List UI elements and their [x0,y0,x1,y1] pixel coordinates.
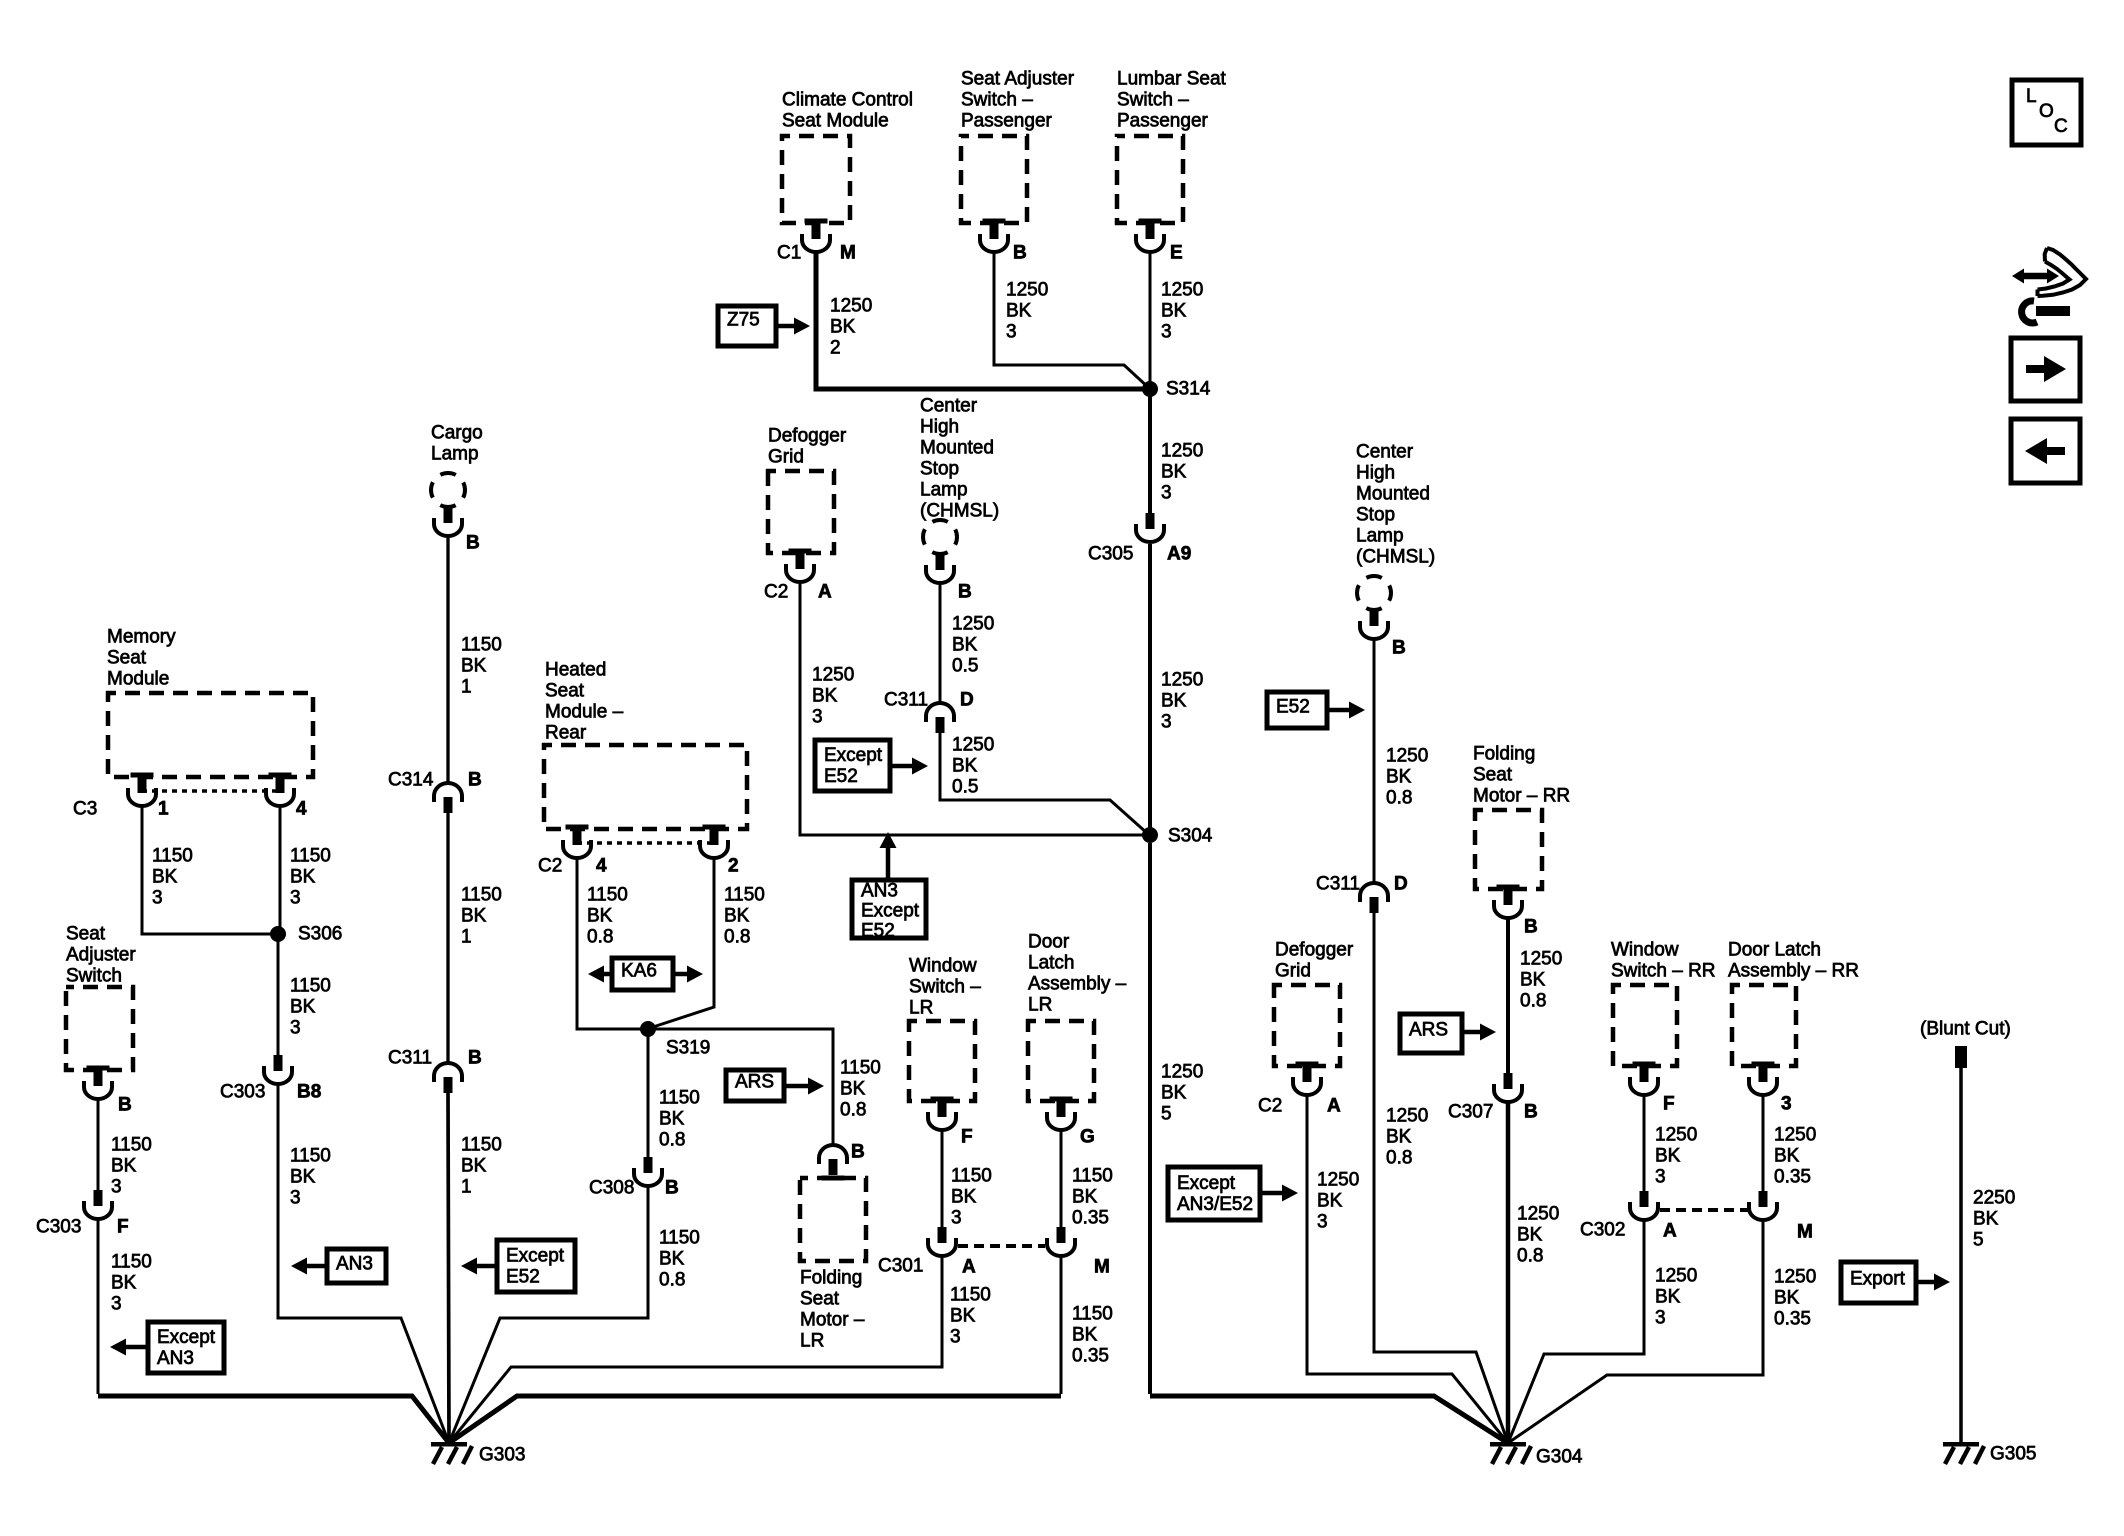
svg-text:BK: BK [1161,301,1187,322]
svg-text:3: 3 [1655,1308,1666,1329]
wire C308 to G303 (1150 BK 0.8) [449,1187,648,1443]
svg-text:Defogger: Defogger [768,426,847,447]
svg-text:0.8: 0.8 [724,927,750,948]
connector C311 pin B [434,1063,462,1093]
svg-text:AN3/E52: AN3/E52 [1177,1194,1253,1215]
Except E52 arrow left [461,1258,497,1275]
svg-text:B: B [118,1095,132,1116]
svg-text:F: F [1663,1094,1675,1115]
label 1250 BK 3 defogger right [1317,1170,1359,1233]
Export reference box [1841,1262,1916,1303]
svg-text:3: 3 [1161,322,1172,343]
svg-text:Motor –: Motor – [800,1310,865,1331]
svg-text:1150: 1150 [290,1146,331,1167]
door latch assembly RR label [1728,940,1859,982]
svg-text:1250: 1250 [1517,1204,1559,1225]
svg-text:1250: 1250 [1774,1125,1816,1146]
svg-text:1250: 1250 [1006,280,1048,301]
CHMSL center connector pin B [926,554,954,583]
svg-text:1150: 1150 [111,1252,152,1273]
svg-text:F: F [961,1127,973,1148]
connector C311 pin D center [926,703,954,733]
label 1250 BK 3 lumbar [1161,280,1203,343]
window switch RR box [1613,985,1677,1066]
svg-text:1150: 1150 [461,885,502,906]
svg-text:1: 1 [461,1177,472,1198]
wire passenger B to S314 (1250 BK 3) [994,253,1150,389]
svg-text:3: 3 [1655,1167,1666,1188]
svg-text:2250: 2250 [1973,1188,2015,1209]
svg-text:0.8: 0.8 [587,927,613,948]
defogger center connector pin A [786,549,814,583]
svg-text:Switch – RR: Switch – RR [1611,961,1716,982]
door latch RR connector pin 3 [1749,1062,1777,1096]
window RR connector pin F [1630,1062,1658,1096]
svg-text:1150: 1150 [1072,1304,1113,1325]
wire C305 to S304 (1250 BK 3) [1148,544,1152,835]
E52 arrow [1327,702,1365,719]
label 1250 BK 0.8 CHMSL right [1386,746,1428,809]
wire C3-4 to S306 (1150 BK 3) [279,807,282,934]
svg-text:A: A [1327,1096,1341,1117]
defogger grid center box [768,471,834,553]
svg-text:Mounted: Mounted [1356,484,1430,505]
svg-text:3: 3 [1161,483,1172,504]
wire C311-D to S304 (1250 BK 0.5) [940,733,1147,833]
svg-text:0.5: 0.5 [952,777,978,798]
svg-text:A: A [962,1257,976,1278]
label 1150 BK 3 pin4 [290,846,331,909]
Except AN3 reference box [148,1322,224,1373]
svg-text:1250: 1250 [1161,441,1203,462]
CHMSL right lamp symbol [1357,576,1391,610]
label 1250 BK 3 passenger [1006,280,1048,343]
connector C2 pin 2 [700,825,728,859]
pin label C1 M [777,243,856,264]
svg-text:BK: BK [461,656,487,677]
connector M RR [1749,1191,1777,1220]
svg-text:0.35: 0.35 [1072,1208,1109,1229]
svg-text:C303: C303 [36,1217,81,1238]
svg-text:Assembly –: Assembly – [1028,974,1127,995]
wire C311-D right to G304 (1250 BK 0.8) [1374,913,1508,1443]
wire S314 to C305 (1250 BK 3) [1148,389,1152,513]
svg-text:BK: BK [290,997,316,1018]
svg-text:AN3: AN3 [336,1254,373,1275]
Except AN3 arrow [110,1339,148,1356]
svg-text:AN3: AN3 [157,1348,194,1369]
wire S319 to folding seat motor LR (1150 BK 0.8) [648,1029,833,1144]
label C314 B [388,770,482,791]
wire C301-A to G303 (1150 BK 3) [449,1257,942,1443]
window switch LR connector pin F [928,1097,956,1131]
svg-text:B: B [468,770,482,791]
svg-text:3: 3 [1317,1212,1328,1233]
svg-text:Window: Window [909,956,977,977]
label C2 A defogger center [764,582,832,603]
label C302 A [1580,1220,1677,1242]
label C303 B8 [220,1082,321,1103]
svg-text:G305: G305 [1990,1444,2036,1465]
wire C307 to G304 (1250 BK 0.8) [1506,1103,1511,1443]
svg-text:0.8: 0.8 [1386,788,1412,809]
svg-text:BK: BK [1072,1325,1098,1346]
ARS reference box right [1400,1014,1462,1053]
svg-text:1: 1 [158,799,169,820]
svg-text:BK: BK [1386,1127,1412,1148]
svg-text:ARS: ARS [735,1072,774,1093]
svg-text:C311: C311 [884,690,928,711]
svg-text:1250: 1250 [1520,949,1562,970]
svg-text:2: 2 [830,338,841,359]
blunt cut terminal [1955,1046,1967,1068]
Except AN3/E52 reference box [1168,1167,1260,1220]
folding seat motor RR box [1475,810,1542,889]
svg-text:1: 1 [461,927,472,948]
svg-text:B: B [851,1142,865,1163]
svg-text:Heated: Heated [545,660,606,681]
ARS arrow left [784,1078,824,1095]
svg-text:Seat: Seat [107,648,147,669]
connector C305 pin A9 [1136,513,1164,542]
wire S319 to C308 (1150 BK 0.8) [647,1029,650,1157]
memory connector face dotted line [142,789,280,793]
svg-text:1250: 1250 [1317,1170,1359,1191]
label C2 A defogger right [1258,1096,1341,1117]
svg-text:C303: C303 [220,1082,265,1103]
svg-text:0.35: 0.35 [1774,1309,1811,1330]
LOC legend box [2012,80,2081,145]
svg-text:BK: BK [659,1249,685,1270]
wire B to C303-F (1150 BK 3) [97,1100,100,1190]
E52 reference box [1267,692,1327,728]
wire defogger C2-A to S304 (1250 BK 3) [800,583,1150,835]
svg-text:LR: LR [909,998,933,1019]
svg-text:Assembly – RR: Assembly – RR [1728,961,1859,982]
svg-text:KA6: KA6 [621,961,657,982]
svg-text:1250: 1250 [1655,1125,1697,1146]
cargo lamp label [431,423,483,465]
label 1150 BK 0.8 folding LR [840,1058,881,1121]
label 1150 BK 0.8 pin2 [724,885,765,948]
label 1250 BK 3 above C302 [1655,1125,1697,1188]
wire defogger right to G304 (1250 BK 3) [1307,1096,1508,1443]
svg-text:C2: C2 [1258,1096,1282,1117]
connector pin B passenger [980,219,1008,253]
splice S319 [640,1021,656,1037]
label C3 pins 1 and 4 [73,799,307,820]
label 1250 BK 3 defogger center [812,665,854,728]
wire C303-B8 to G303 (1150 BK 3) [278,1085,449,1443]
svg-text:2: 2 [728,856,739,877]
wire CHMSL right B to C311-D (1250 BK 0.8) [1373,640,1376,882]
svg-text:1150: 1150 [840,1058,881,1079]
svg-text:Folding: Folding [1473,744,1535,765]
svg-text:BK: BK [1317,1191,1343,1212]
svg-text:3: 3 [152,888,163,909]
C302 connector face dashed line [1660,1208,1748,1212]
svg-text:BK: BK [1006,301,1032,322]
svg-text:(CHMSL): (CHMSL) [1356,547,1435,568]
svg-text:B: B [468,1048,482,1069]
svg-text:C302: C302 [1580,1220,1625,1241]
wire G to M (1150 BK 0.35) [1060,1131,1063,1227]
svg-text:1250: 1250 [1386,1106,1428,1127]
svg-text:E52: E52 [506,1267,540,1288]
svg-text:D: D [1394,874,1408,895]
label C2 pins 4 and 2 [538,856,739,877]
label 1150 BK 3 pin1 [152,846,193,909]
folding seat motor LR box [800,1178,866,1261]
label 1250 BK 0.35 below M RR [1774,1267,1816,1330]
svg-text:C: C [2054,116,2068,137]
wire S304 down (1250 BK 5) [1148,843,1152,1394]
connector pin E lumbar [1136,219,1164,253]
label 1250 BK 0.8 below C311 right [1386,1106,1428,1169]
svg-text:1250: 1250 [952,735,994,756]
seat adjuster switch passenger box [961,136,1027,223]
svg-text:3: 3 [111,1177,122,1198]
svg-text:1150: 1150 [1072,1166,1113,1187]
svg-text:5: 5 [1973,1230,1984,1251]
wire S306 to C303-B8 (1150 BK 3) [277,934,280,1055]
Z75 reference box [718,306,776,346]
svg-text:1250: 1250 [1655,1266,1697,1287]
label C308 B [589,1178,679,1199]
svg-text:BK: BK [461,906,487,927]
wire right horizontal to G303 [449,1396,1061,1443]
label 1250 BK 0.35 above M RR [1774,1125,1816,1188]
label C311 D right [1316,874,1408,895]
svg-text:E52: E52 [824,766,858,787]
wire C2-2 to S319 (1150 BK 0.8) [650,859,714,1028]
svg-text:ARS: ARS [1409,1020,1448,1041]
svg-text:B: B [1013,243,1027,264]
svg-text:1150: 1150 [950,1285,991,1306]
climate control seat module box [782,136,850,223]
svg-text:3: 3 [812,707,823,728]
connector C303 pin B8 [264,1055,292,1084]
svg-text:3: 3 [290,1018,301,1039]
Except AN3/E52 arrow [1260,1185,1298,1202]
AN3 arrow [291,1258,327,1275]
svg-text:C307: C307 [1448,1102,1493,1123]
svg-text:C2: C2 [764,582,788,603]
label 1250 BK 3 trunk upper [1161,441,1203,504]
svg-text:Except: Except [824,745,883,766]
door latch assembly LR label [1028,932,1127,1016]
cargo lamp symbol [431,473,465,507]
svg-text:BK: BK [1072,1187,1098,1208]
ground G305 [1943,1442,2036,1465]
svg-text:BK: BK [1386,767,1412,788]
svg-text:Folding: Folding [800,1268,862,1289]
wire C3-1 to S306 (1150 BK 3) [142,807,278,934]
svg-text:Seat: Seat [800,1289,840,1310]
svg-text:0.5: 0.5 [952,656,978,677]
previous page arrow box [2011,419,2080,483]
svg-text:0.35: 0.35 [1072,1346,1109,1367]
svg-text:0.8: 0.8 [1517,1246,1543,1267]
svg-text:G304: G304 [1536,1447,1583,1468]
label C305 A9 [1088,544,1191,565]
svg-text:1250: 1250 [1161,670,1203,691]
label 1250 BK 0.8 below C307 [1517,1204,1559,1267]
svg-text:M: M [1094,1257,1110,1278]
wire M down (1150 BK 0.35) [1060,1257,1063,1394]
svg-text:AN3: AN3 [861,881,898,902]
svg-text:BK: BK [290,867,316,888]
svg-text:Memory: Memory [107,627,176,648]
wire lumbar E to S314 (1250 BK 3) [1149,253,1152,389]
folding seat motor LR label [800,1268,865,1352]
connector C3 pin 1 [128,773,156,807]
svg-text:Passenger: Passenger [961,111,1053,132]
KA6 left arrow [588,966,612,983]
svg-text:Adjuster: Adjuster [66,945,136,966]
svg-text:Switch –: Switch – [961,90,1033,111]
svg-text:3: 3 [951,1208,962,1229]
svg-text:4: 4 [596,856,607,877]
svg-text:1250: 1250 [812,665,854,686]
svg-text:1150: 1150 [461,1135,502,1156]
wire M RR to G304 (1250 BK 0.35) [1508,1221,1763,1443]
svg-text:Door Latch: Door Latch [1728,940,1821,961]
svg-text:BK: BK [1517,1225,1543,1246]
heated connector face dotted line [577,841,714,845]
wire C303-F down (1150 BK 3) [97,1220,100,1394]
svg-text:1250: 1250 [830,296,872,317]
label 1150 BK 0.35 below M [1072,1304,1113,1367]
svg-text:Lamp: Lamp [431,444,479,465]
label 1150 BK 1 upper [461,635,502,698]
ground G304 [1490,1442,1583,1468]
splice S314 [1142,381,1158,397]
label C307 B [1448,1102,1538,1123]
window switch LR label [909,956,981,1019]
CHMSL center label [920,396,999,522]
next page arrow box [2011,338,2080,401]
svg-text:Mounted: Mounted [920,438,994,459]
svg-text:Defogger: Defogger [1275,940,1354,961]
connector C311 pin D right [1360,883,1388,913]
Except E52 reference box center [815,740,890,791]
svg-text:BK: BK [587,906,613,927]
svg-text:Switch –: Switch – [1117,90,1189,111]
door latch assembly LR box [1028,1021,1094,1101]
svg-text:BK: BK [1655,1287,1681,1308]
svg-text:BK: BK [1655,1146,1681,1167]
svg-text:D: D [960,690,974,711]
svg-text:1150: 1150 [290,976,331,997]
svg-text:Module: Module [107,669,169,690]
folding seat motor LR connector pin B [819,1145,847,1175]
ground G303 [431,1442,525,1466]
connector C3 pin 4 [266,773,294,807]
svg-text:LR: LR [1028,995,1052,1016]
svg-text:Seat Module: Seat Module [782,111,889,132]
svg-text:BK: BK [659,1109,685,1130]
svg-text:1250: 1250 [952,614,994,635]
svg-text:BK: BK [1161,462,1187,483]
wire C2-4 to S319 (1150 BK 0.8) [577,859,648,1029]
svg-text:BK: BK [1973,1209,1999,1230]
folding RR connector pin B [1494,885,1522,919]
svg-text:0.8: 0.8 [1520,991,1546,1012]
svg-text:BK: BK [724,906,750,927]
label 1150 BK 0.8 pin4 [587,885,628,948]
svg-text:1150: 1150 [951,1166,992,1187]
svg-text:C308: C308 [589,1178,634,1199]
svg-text:A9: A9 [1167,544,1191,565]
svg-text:High: High [1356,463,1395,484]
svg-text:1150: 1150 [724,885,765,906]
connector C307 pin B [1494,1073,1522,1102]
svg-text:Center: Center [920,396,978,417]
svg-text:3: 3 [1781,1094,1792,1115]
folding seat motor RR label [1473,744,1570,807]
wire C1-M to S314 (1250 BK 2) [816,253,1150,389]
CHMSL right label [1356,442,1435,568]
defogger grid right box [1274,985,1340,1066]
Except E52 reference box left [497,1240,575,1292]
ARS arrow right [1462,1024,1496,1041]
svg-text:Rear: Rear [545,723,587,744]
wire left horizontal to G303 [98,1396,449,1443]
defogger right connector pin A [1293,1062,1321,1096]
svg-text:1250: 1250 [1161,1062,1203,1083]
CHMSL center lamp symbol [923,520,957,554]
Except E52 arrow center [890,758,928,775]
ARS reference box left [726,1070,784,1101]
svg-text:BK: BK [1161,691,1187,712]
svg-text:1150: 1150 [152,846,193,867]
svg-text:(CHMSL): (CHMSL) [920,501,999,522]
svg-text:3: 3 [290,1188,301,1209]
svg-text:Module –: Module – [545,702,624,723]
svg-text:E: E [1170,243,1183,264]
svg-text:BK: BK [951,1187,977,1208]
svg-text:LR: LR [800,1331,824,1352]
svg-text:Switch: Switch [66,966,122,987]
label 1150 BK 3 below C303-B8 [290,1146,331,1209]
seat adjuster switch passenger label [961,69,1075,132]
window switch LR box [909,1021,975,1101]
wire CHMSL B to C311-D (1250 BK 0.5) [939,584,942,702]
seat adjuster connector pin B [84,1066,112,1099]
svg-text:B: B [1392,638,1406,659]
label 2250 BK 5 [1973,1188,2015,1251]
svg-text:High: High [920,417,959,438]
svg-text:S314: S314 [1166,379,1211,400]
window switch RR label [1611,940,1716,982]
lumbar seat switch passenger box [1117,136,1183,223]
label 1150 BK 3 below S306 [290,976,331,1039]
svg-text:Cargo: Cargo [431,423,483,444]
svg-text:B8: B8 [297,1082,321,1103]
svg-text:1150: 1150 [659,1228,700,1249]
label 1150 BK 0.35 above M [1072,1166,1113,1229]
svg-text:(Blunt Cut): (Blunt Cut) [1920,1019,2011,1040]
label 1250 BK 3 trunk mid [1161,670,1203,733]
svg-text:Lamp: Lamp [1356,526,1404,547]
svg-text:C314: C314 [388,770,434,791]
seat adjuster switch box [66,987,133,1070]
svg-text:3: 3 [950,1327,961,1348]
lumbar seat switch passenger label [1117,69,1227,132]
heated seat module rear label [545,660,624,744]
svg-text:BK: BK [840,1079,866,1100]
